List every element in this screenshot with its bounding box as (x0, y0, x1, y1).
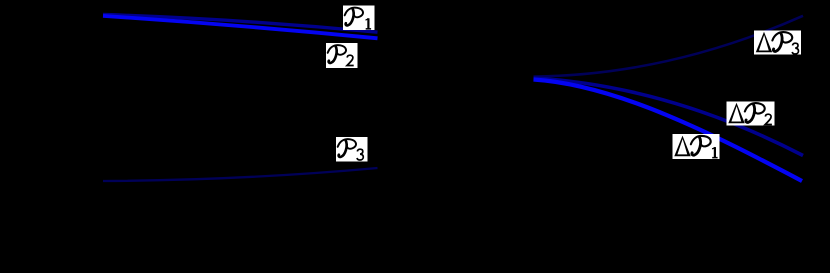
label P3 (336, 137, 368, 162)
label dP1 (673, 134, 720, 159)
curve P2 (bright blue, left panel, just below P1) (103, 16, 378, 38)
label P2 (326, 43, 358, 68)
curve dP1 (bright blue, right panel falling steepest) (534, 80, 803, 182)
label P1 (343, 6, 375, 31)
curve P1 (dark blue, left panel top) (103, 15, 378, 33)
label dP3 (754, 31, 801, 55)
label dP2 (727, 102, 775, 126)
curve dP2 (dark blue, right panel falling) (534, 78, 804, 156)
curve P3 (thin navy, left panel bottom) (103, 168, 378, 181)
curve dP3 (thin navy, right panel rising) (534, 16, 804, 77)
